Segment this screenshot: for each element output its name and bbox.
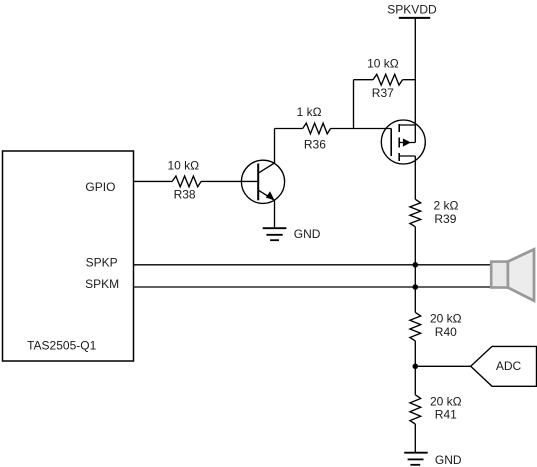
- svg-text:20 kΩ: 20 kΩ: [430, 312, 462, 326]
- svg-text:R40: R40: [435, 325, 457, 339]
- svg-text:2 kΩ: 2 kΩ: [434, 199, 459, 213]
- svg-text:GND: GND: [294, 227, 321, 241]
- svg-text:ADC: ADC: [496, 359, 522, 373]
- svg-text:SPKM: SPKM: [85, 277, 119, 291]
- svg-text:20 kΩ: 20 kΩ: [430, 395, 462, 409]
- svg-text:GND: GND: [435, 453, 462, 467]
- svg-text:SPKP: SPKP: [86, 256, 118, 270]
- svg-text:TAS2505-Q1: TAS2505-Q1: [27, 339, 96, 353]
- svg-text:R41: R41: [435, 408, 457, 422]
- svg-text:1 kΩ: 1 kΩ: [297, 105, 322, 119]
- svg-text:R38: R38: [174, 188, 196, 202]
- svg-text:SPKVDD: SPKVDD: [387, 3, 437, 17]
- svg-text:10 kΩ: 10 kΩ: [367, 57, 399, 71]
- svg-text:10 kΩ: 10 kΩ: [168, 159, 200, 173]
- svg-text:R39: R39: [434, 212, 456, 226]
- svg-text:GPIO: GPIO: [85, 180, 115, 194]
- svg-text:R36: R36: [304, 138, 326, 152]
- svg-text:R37: R37: [372, 86, 394, 100]
